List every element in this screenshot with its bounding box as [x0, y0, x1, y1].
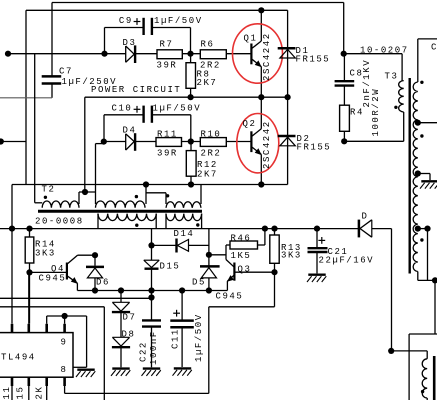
wire row2 rail — [12, 184, 288, 186]
wire T3 tap1 — [418, 122, 437, 124]
svg-text:POWER CIRCUIT: POWER CIRCUIT — [91, 85, 181, 95]
svg-text:R6: R6 — [201, 40, 215, 50]
diode D5 — [200, 229, 220, 291]
svg-text:2K: 2K — [35, 386, 45, 400]
wire R4 to T3 primary — [344, 112, 403, 141]
wire 10-0207 — [344, 54, 402, 81]
svg-text:D4: D4 — [123, 125, 137, 135]
transformer T2 secondary 2 — [166, 214, 202, 221]
svg-text:2SC4242: 2SC4242 — [262, 32, 272, 81]
wire box row2 — [84, 97, 86, 192]
diode D14 — [152, 239, 209, 253]
wire C7 return to edge — [0, 97, 52, 99]
svg-text:T2: T2 — [42, 185, 56, 195]
ground C11 — [173, 368, 192, 375]
wire rail to TL494 pin1 — [11, 185, 13, 324]
svg-text:R12: R12 — [197, 160, 218, 170]
capacitor C22 — [142, 291, 161, 368]
transformer T2 secondary 1 — [98, 214, 156, 221]
svg-text:C11: C11 — [171, 328, 181, 349]
node stub left — [1, 141, 26, 143]
wire TL494 pin2 drop — [28, 272, 30, 323]
wire output D to choke — [391, 351, 427, 359]
ic TL494 — [0, 333, 73, 378]
resistor R14 — [25, 229, 34, 273]
resistor R10 — [200, 138, 226, 147]
pin TL494 — [11, 324, 14, 386]
wire rail to Q1 collector — [26, 9, 288, 11]
transformer T2 primary 3 — [166, 202, 201, 208]
svg-text:D8: D8 — [122, 329, 136, 339]
wire +rail top to 10-0207 node — [52, 3, 344, 54]
transformer T2 primary 1 — [42, 201, 79, 208]
svg-text:39R: 39R — [157, 61, 178, 71]
svg-text:TL494: TL494 — [1, 353, 36, 363]
svg-text:D5: D5 — [192, 278, 206, 288]
wire emitter return rail — [77, 290, 227, 292]
wire T3 sec top — [418, 39, 437, 82]
resistor R12 — [186, 142, 196, 185]
pin TL494 — [63, 324, 66, 386]
resistor R13 — [270, 229, 279, 273]
svg-text:2SC4242: 2SC4242 — [262, 120, 272, 169]
svg-text:9: 9 — [61, 338, 68, 348]
svg-text:8: 8 — [61, 365, 68, 375]
diode D2 — [278, 136, 296, 146]
svg-text:D3: D3 — [123, 38, 137, 48]
transistor Q1 — [251, 10, 261, 97]
svg-text:C: C — [431, 43, 437, 53]
diode D6 — [86, 255, 104, 290]
svg-text:1µF/50V: 1µF/50V — [194, 313, 204, 362]
core output choke — [433, 356, 436, 400]
svg-text:D6: D6 — [96, 278, 110, 288]
transistor Q4 — [30, 255, 78, 290]
transistor Q3 — [226, 260, 275, 291]
svg-text:2R2: 2R2 — [201, 149, 222, 159]
resistor R7 — [157, 50, 182, 59]
svg-text:C7: C7 — [59, 67, 73, 77]
wire feedback 2 — [0, 307, 104, 400]
transformer T3 primary — [399, 81, 404, 112]
svg-text:20-0008: 20-0008 — [35, 216, 84, 226]
svg-text:11: 11 — [2, 386, 12, 400]
transformer T3 secondary — [413, 82, 418, 272]
red circle Q1 — [233, 24, 283, 83]
resistor R6 — [200, 50, 226, 59]
svg-text:10-0207: 10-0207 — [360, 45, 409, 55]
ground TL494 — [76, 370, 95, 377]
ground D8 — [111, 369, 130, 376]
transformer T2 primary 2 — [96, 201, 146, 208]
wire C10 to T2 — [96, 142, 104, 205]
svg-text:D: D — [362, 212, 369, 222]
svg-text:FR155: FR155 — [297, 143, 332, 153]
svg-text:R10: R10 — [201, 129, 222, 139]
ground C22 — [142, 369, 161, 376]
pin TL494 — [27, 324, 30, 386]
capacitor C7 — [42, 54, 62, 98]
transformer T3 core — [409, 78, 411, 274]
capacitor C10 — [104, 106, 191, 142]
svg-text:1K5: 1K5 — [231, 251, 252, 261]
svg-text:2K7: 2K7 — [197, 170, 218, 180]
svg-text:Q3: Q3 — [238, 264, 252, 274]
wire T3 secondary bottom taps — [418, 229, 435, 334]
svg-text:C10: C10 — [112, 104, 133, 114]
wire TL494 bottom pins — [12, 386, 65, 400]
svg-text:100nF: 100nF — [149, 330, 159, 365]
capacitor C21 — [308, 229, 328, 274]
wire row1 gnd rail — [35, 54, 288, 203]
wire output frame — [409, 334, 437, 400]
svg-text:3K3: 3K3 — [281, 251, 302, 261]
svg-text:R11: R11 — [157, 129, 178, 139]
svg-text:100R/2W: 100R/2W — [371, 88, 381, 137]
capacitor C11 — [170, 291, 194, 368]
wire R14 to TL494 pin2 — [29, 272, 31, 323]
svg-text:15: 15 — [15, 386, 25, 400]
wire D1 vertical — [287, 10, 289, 184]
resistor R4 — [340, 105, 350, 141]
wire bus — [0, 229, 392, 351]
diode D7 — [112, 291, 130, 338]
diode D15 — [144, 229, 159, 291]
transistor Q2 — [251, 97, 261, 184]
svg-text:FR155: FR155 — [296, 54, 331, 64]
wire T3 tap2 — [418, 174, 430, 181]
resistor R46 — [230, 229, 265, 249]
capacitor C8 — [335, 54, 355, 105]
svg-text:39R: 39R — [157, 149, 178, 159]
svg-text:C22: C22 — [138, 341, 148, 362]
wire feedback 1 — [0, 297, 152, 299]
diode D1 — [278, 48, 296, 58]
svg-text:Q2: Q2 — [243, 119, 257, 129]
svg-text:2K7: 2K7 — [197, 78, 218, 88]
ground T3 — [420, 181, 437, 188]
red circle Q2 — [237, 114, 279, 173]
inductor output choke — [422, 359, 427, 400]
svg-text:C9: C9 — [119, 16, 133, 26]
wire Q4 collector — [78, 254, 96, 256]
diode D8 — [112, 337, 130, 367]
diode D4 — [126, 133, 135, 151]
svg-text:R7: R7 — [160, 40, 174, 50]
wire Q3 node to bottom — [209, 272, 275, 393]
wire TL494 pin4 bottom run — [65, 392, 209, 394]
diode D3 — [126, 45, 135, 63]
wire TL494 pin9-pin10 loop — [47, 316, 87, 367]
svg-text:3K3: 3K3 — [35, 248, 56, 258]
svg-text:C945: C945 — [216, 291, 244, 301]
svg-text:D15: D15 — [160, 261, 181, 271]
wire node D14-Q3 collector — [209, 245, 230, 260]
wire rail drop to C7 — [51, 3, 53, 54]
wire T2 prim leads — [79, 185, 201, 205]
pin TL494 — [45, 324, 48, 386]
svg-text:1µF/50V: 1µF/50V — [153, 104, 202, 114]
svg-text:D7: D7 — [123, 313, 137, 323]
resistor R8 — [186, 54, 196, 97]
capacitor C9 — [105, 18, 191, 54]
svg-text:22µF/16V: 22µF/16V — [319, 255, 375, 265]
svg-text:R46: R46 — [231, 233, 252, 243]
svg-text:R4: R4 — [350, 108, 364, 118]
transformer T2 core — [38, 210, 202, 213]
svg-text:T3: T3 — [385, 72, 399, 82]
wire node row1 base — [8, 53, 251, 55]
ground C21 — [307, 275, 326, 282]
wire T2 sec stubs — [98, 214, 202, 229]
diode D — [359, 220, 372, 238]
svg-text:C945: C945 — [39, 273, 67, 283]
svg-text:D14: D14 — [174, 229, 195, 239]
svg-text:Q1: Q1 — [244, 34, 258, 44]
svg-text:1µF/50V: 1µF/50V — [154, 16, 203, 26]
wire left drop x26 — [25, 10, 27, 184]
resistor R11 — [156, 138, 182, 147]
wire node row2 base — [104, 141, 252, 143]
